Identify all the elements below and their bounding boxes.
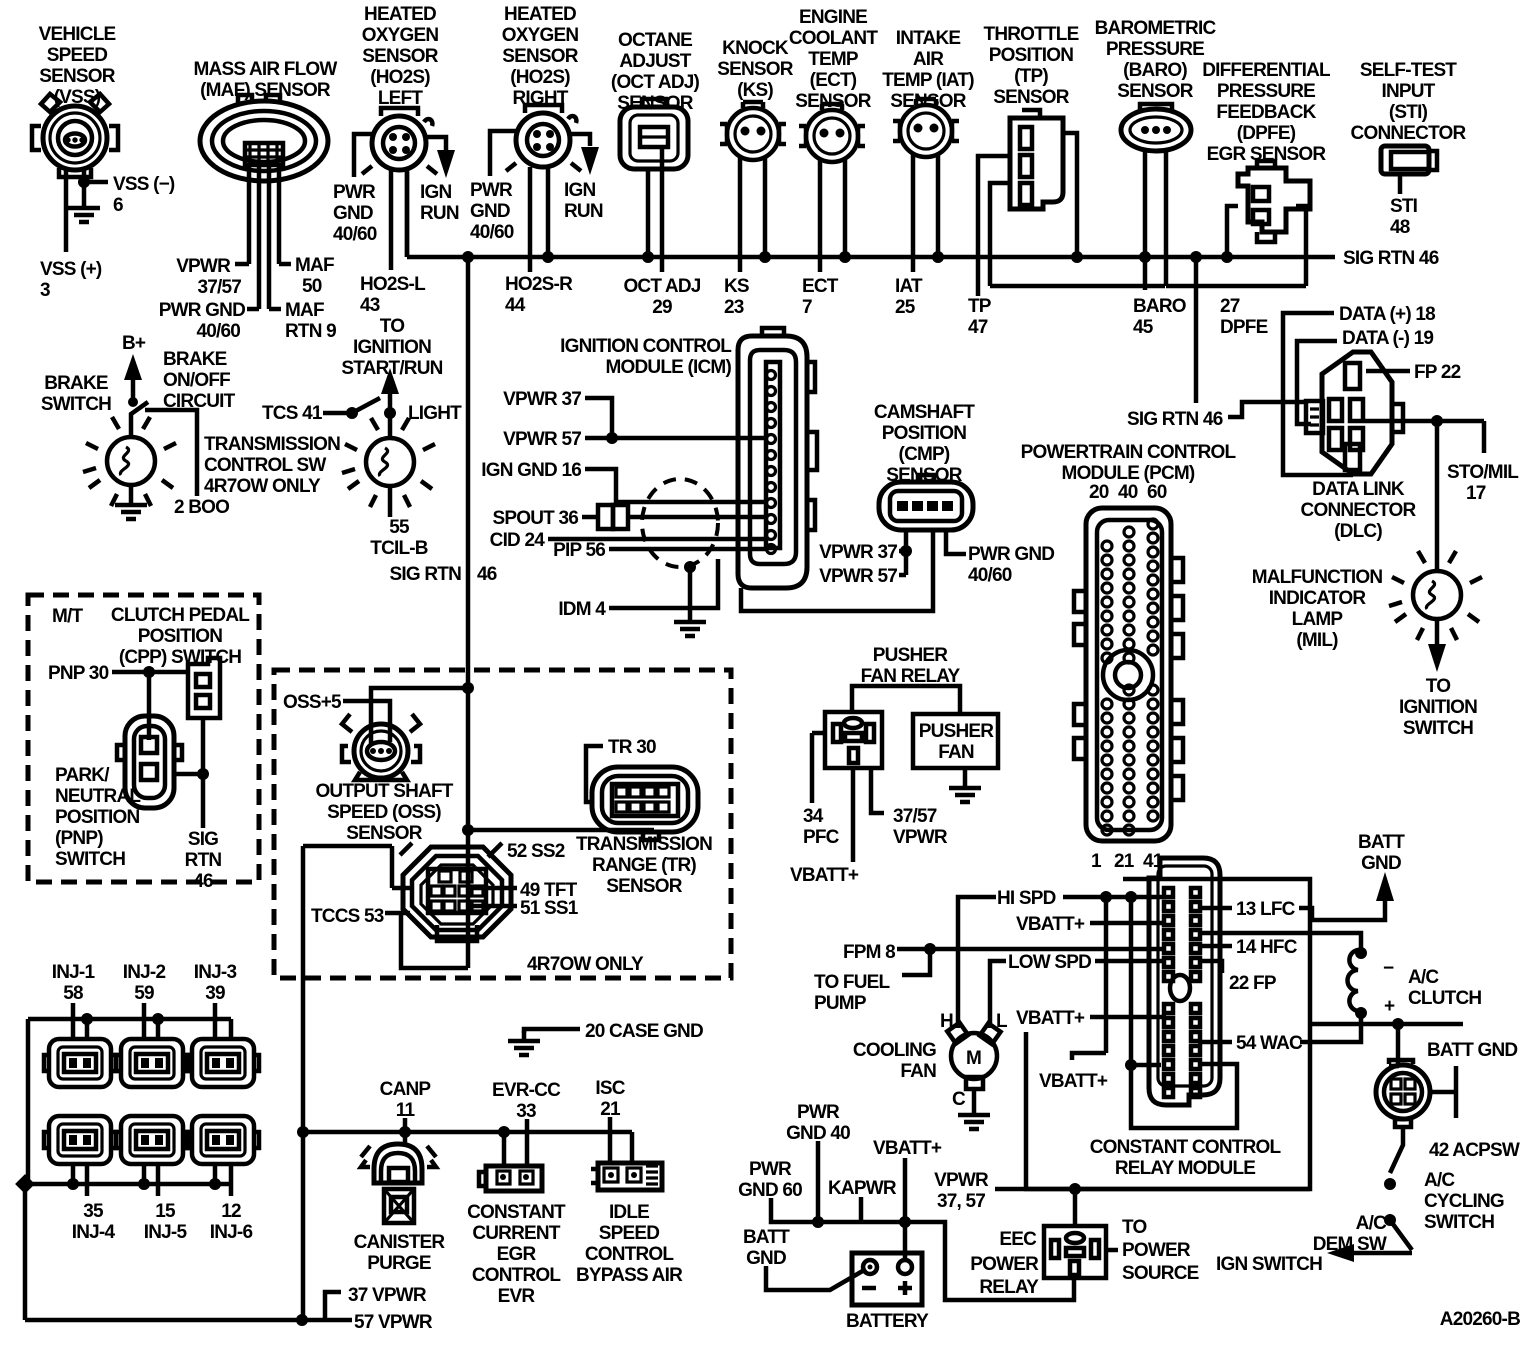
svg-text:MALFUNCTION: MALFUNCTION [1252,567,1383,588]
svg-text:37, 57: 37, 57 [937,1191,985,1212]
svg-text:37/57: 37/57 [893,806,937,827]
label VPWR 57 (ICM) [503,429,581,450]
svg-text:MODULE (ICM): MODULE (ICM) [606,357,732,378]
svg-text:(KS): (KS) [737,80,773,101]
svg-text:(PNP): (PNP) [55,828,103,849]
svg-text:POSITION: POSITION [882,423,966,444]
svg-text:VBATT+: VBATT+ [873,1138,942,1159]
label DATA LINK CONNECTOR (DLC) [1301,479,1417,542]
BARO sensor connector [1121,104,1191,151]
label PUSHER FAN RELAY [861,645,961,687]
label PNP 30 [48,663,109,684]
svg-text:BRAKE: BRAKE [44,373,108,394]
OCT ADJ pin wires [648,147,662,272]
wire A/C cycling feed [1310,1022,1463,1027]
svg-text:CONNECTOR: CONNECTOR [1301,500,1417,521]
svg-text:MAF: MAF [285,300,324,321]
label PWR GND 40 [786,1102,850,1144]
ground below shield [674,612,706,636]
HO2S-L wires: PWR GND stub, IGN RUN arrow, pin wires [354,134,446,177]
wire VPWR37 tick [899,549,906,554]
svg-text:BARO: BARO [1133,296,1186,317]
CMP pin wires [906,530,966,575]
label BARO 45 [1133,296,1186,338]
svg-text:(BARO): (BARO) [1123,60,1187,81]
MAF wires [235,165,291,309]
label MAF 50 [295,255,334,297]
svg-text:LOW SPD: LOW SPD [1008,952,1091,973]
svg-text:40/60: 40/60 [470,222,514,243]
wire CANP down [403,1118,408,1145]
TP sensor connector [1010,110,1063,209]
label VSS (+) 3 [40,259,102,301]
label IGNITION CONTROL MODULE (ICM) [560,336,732,378]
svg-text:SENSOR: SENSOR [346,823,423,844]
svg-text:SPEED (OSS): SPEED (OSS) [327,802,441,823]
svg-text:4R7OW ONLY: 4R7OW ONLY [527,954,644,975]
svg-text:INJ-5: INJ-5 [144,1222,188,1243]
svg-text:MASS AIR FLOW: MASS AIR FLOW [194,59,338,80]
svg-text:A/C: A/C [1408,967,1439,988]
svg-text:VPWR 57: VPWR 57 [819,566,897,587]
malfunction indicator lamp MIL bulb [1389,551,1482,640]
svg-text:TRANSMISSION: TRANSMISSION [204,434,340,455]
svg-text:RUN: RUN [564,201,603,222]
left vertical and bottom VPWR bus [25,1184,352,1320]
wire TCCS tick [385,911,410,916]
svg-text:SPEED: SPEED [47,45,107,66]
powertrain control module PCM connector [1074,508,1183,841]
wire FPM8 to CCRM [897,947,1166,952]
svg-text:(OCT ADJ): (OCT ADJ) [611,72,700,93]
svg-text:(TP): (TP) [1014,66,1048,87]
svg-text:CANP: CANP [380,1079,432,1100]
wire to fuel pump elbow [902,949,930,975]
svg-text:GND: GND [470,201,510,222]
wire CPP bottom to PNP [174,718,203,828]
ECT pin wires [820,160,845,272]
svg-text:25: 25 [895,297,916,318]
wire fan to ground [963,768,968,778]
label SIG RTN 46 (DLC) [1127,409,1223,430]
svg-text:+: + [1384,996,1395,1017]
svg-text:34: 34 [803,806,824,827]
label TO FUEL PUMP [814,972,891,1014]
svg-text:CLUTCH PEDAL: CLUTCH PEDAL [111,605,250,626]
wire cycling switch right bracket [1430,1066,1456,1118]
svg-text:KS: KS [724,276,749,297]
knock sensor connector [720,102,786,160]
svg-text:INTAKE: INTAKE [896,28,961,49]
svg-text:CONTROL: CONTROL [472,1265,562,1286]
label VSS (-) 6 [113,174,175,216]
ground under VSS [68,198,100,222]
svg-text:DATA (+) 18: DATA (+) 18 [1339,304,1435,325]
wire VPWR 37,57 line [995,1187,1310,1192]
svg-text:LIGHT: LIGHT [408,403,462,424]
data link connector DLC [1306,352,1403,474]
label 57 VPWR [354,1312,433,1333]
pusher fan relay connector [825,712,882,768]
svg-text:STO/MIL: STO/MIL [1447,462,1519,483]
svg-text:SENSOR: SENSOR [890,91,967,112]
svg-text:VPWR 57: VPWR 57 [503,429,581,450]
svg-text:OUTPUT SHAFT: OUTPUT SHAFT [315,781,453,802]
svg-text:(MIL): (MIL) [1296,630,1338,651]
svg-text:BATT: BATT [1358,832,1405,853]
svg-text:FPM 8: FPM 8 [843,942,895,963]
svg-text:RELAY MODULE: RELAY MODULE [1115,1158,1255,1179]
label PWR GND 40/60 [159,300,245,342]
wire fan L to LOW SPD [990,961,1006,1028]
svg-text:SWITCH: SWITCH [1403,718,1473,739]
wire battery plus to EEC relay [905,1222,1074,1300]
injector INJ-6 connector [187,1116,259,1164]
label B+ [122,333,146,354]
svg-text:DATA (-) 19: DATA (-) 19 [1342,328,1433,349]
svg-text:FP 22: FP 22 [1414,362,1461,383]
svg-text:EGR: EGR [497,1244,537,1265]
svg-text:7: 7 [802,297,812,318]
label A/C CLUTCH [1408,967,1481,1009]
svg-text:43: 43 [360,295,380,316]
svg-text:IGNITION: IGNITION [1399,697,1477,718]
label IGN RUN (HO2S-R) [564,180,603,222]
label OSS+5 [283,692,342,713]
svg-text:42 ACPSW: 42 ACPSW [1429,1140,1520,1161]
svg-text:STI: STI [1390,196,1418,217]
label PUSHER FAN [919,721,994,763]
wire PWR GND 60 [771,1198,902,1222]
heated oxygen sensor HO2S right label [502,4,579,109]
svg-text:BATT: BATT [743,1227,790,1248]
svg-text:GND 40: GND 40 [786,1123,850,1144]
svg-text:ENGINE: ENGINE [799,7,867,28]
svg-text:(DPFE): (DPFE) [1237,123,1296,144]
label 20 40 60 [1089,482,1167,503]
svg-text:LAMP: LAMP [1292,609,1344,630]
label CANISTER PURGE [354,1232,446,1274]
svg-text:29: 29 [652,297,672,318]
SIG RTN vertical through octagon to U-loop [466,688,471,968]
output shaft speed OSS sensor connector [342,714,420,780]
wire EEC relay top [1073,1189,1078,1226]
svg-text:SIG RTN: SIG RTN [390,564,462,585]
label DATA (+) 18 [1339,304,1435,325]
label 52 SS2 [507,841,565,862]
wire OSS+5 into sensor [343,701,390,742]
label CLUTCH PEDAL POSITION (CPP) SWITCH [111,605,250,668]
svg-text:PFC: PFC [803,827,840,848]
svg-text:FAN: FAN [900,1061,936,1082]
label MAF RTN 9 [285,300,336,342]
injector lower bus wire [25,1164,231,1196]
svg-text:4R7OW ONLY: 4R7OW ONLY [204,476,321,497]
svg-text:KNOCK: KNOCK [722,38,789,59]
svg-text:GND: GND [333,203,373,224]
label FPM 8 [843,942,895,963]
svg-text:MODULE (PCM): MODULE (PCM) [1062,463,1195,484]
svg-text:EVR: EVR [498,1286,536,1307]
svg-text:27: 27 [1220,296,1240,317]
svg-text:VPWR: VPWR [176,256,231,277]
svg-text:PWR: PWR [749,1159,792,1180]
svg-text:PWR GND: PWR GND [968,544,1054,565]
svg-text:COOLANT: COOLANT [789,28,879,49]
svg-text:CONSTANT CONTROL: CONSTANT CONTROL [1090,1137,1282,1158]
svg-text:PWR: PWR [470,180,513,201]
KS pin wires [740,158,765,272]
svg-text:PARK/: PARK/ [55,765,110,786]
label INJ-2 59 [123,962,166,1004]
label EEC POWER RELAY [970,1229,1039,1298]
svg-text:TCS 41: TCS 41 [262,403,323,424]
svg-text:INDICATOR: INDICATOR [1269,588,1367,609]
wire VBATT+ down to battery [903,1158,908,1258]
label ISC 21 [595,1078,625,1120]
CCRM pin squares [1164,888,1200,1097]
svg-text:BYPASS AIR: BYPASS AIR [576,1265,683,1286]
svg-text:6: 6 [113,195,123,216]
svg-text:(STI): (STI) [1389,102,1428,123]
svg-text:L: L [996,1011,1008,1032]
label CAMSHAFT POSITION (CMP) SENSOR [874,402,975,486]
octane adjust sensor connector [620,99,688,169]
label 20 CASE GND [585,1021,703,1042]
heated oxygen sensor HO2S left label [362,4,439,109]
svg-text:−: − [1383,958,1394,979]
label INJ-3 39 [194,962,237,1004]
CCRM keying oval [1170,975,1190,1001]
wire arrow up B+ [131,378,136,402]
label DATA (-) 19 [1342,328,1433,349]
svg-text:RELAY: RELAY [979,1277,1039,1298]
svg-text:IGNITION: IGNITION [353,337,431,358]
TCIL wire up with arrow [388,392,393,438]
label PWR GND 40/60 (HO2S-L) [333,182,377,245]
wire SPOUT to ICM [582,515,766,520]
label HO2S-R 44 [505,274,573,316]
wire A/C clutch feed [1198,933,1361,951]
svg-text:PIP 56: PIP 56 [553,540,605,561]
svg-text:57 VPWR: 57 VPWR [354,1312,433,1333]
svg-text:58: 58 [63,983,83,1004]
svg-text:PRESSURE: PRESSURE [1106,39,1204,60]
injector INJ-2 connector [116,1039,188,1087]
svg-text:SENSOR: SENSOR [39,66,116,87]
label BRAKE ON/OFF CIRCUIT [163,349,236,412]
wire 22 FP elbow [1198,961,1222,973]
svg-text:INJ-1: INJ-1 [52,962,96,983]
label FP 22 [1414,362,1461,383]
svg-text:VBATT+: VBATT+ [1016,1008,1085,1029]
svg-text:INJ-4: INJ-4 [72,1222,116,1243]
svg-text:SENSOR: SENSOR [502,46,579,67]
brake bulb [83,417,176,506]
svg-text:IDLE: IDLE [609,1202,649,1223]
svg-text:TEMP (IAT): TEMP (IAT) [882,70,974,91]
wire fan H up to HI SPD [958,897,996,1028]
svg-text:VBATT+: VBATT+ [1039,1071,1108,1092]
label IGN RUN (HO2S-L) [420,182,459,224]
TP wires [978,133,1165,296]
wire left harness into octagon [303,846,414,888]
wire TR30 elbow [586,746,603,802]
label VPWR 37, 57 [934,1170,989,1212]
injector INJ-5 connector [116,1116,188,1164]
svg-text:MAF: MAF [295,255,334,276]
svg-text:NEUTRAL: NEUTRAL [55,786,141,807]
label 1 21 41 [1091,851,1164,872]
STI stub wire [1398,174,1403,194]
svg-text:33: 33 [516,1101,536,1122]
svg-text:VSS (−): VSS (−) [113,174,175,195]
wire vbatt branch verticals [1072,897,1237,1128]
park/neutral position PNP switch connector [117,716,182,808]
svg-text:SIG RTN 46: SIG RTN 46 [1343,248,1439,269]
svg-text:HEATED: HEATED [364,4,436,25]
svg-text:HEATED: HEATED [504,4,576,25]
svg-text:FEEDBACK: FEEDBACK [1216,102,1316,123]
svg-text:(HO2S): (HO2S) [370,67,430,88]
label 15 INJ-5 [144,1201,188,1243]
svg-text:HO2S-L: HO2S-L [360,274,426,295]
label PIP 56 [553,540,605,561]
camshaft position CMP sensor connector [879,475,973,530]
label OUTPUT SHAFT SPEED (OSS) SENSOR [315,781,453,844]
heated oxygen sensor HO2S right connector [506,105,581,171]
label 2 BOO [174,497,229,518]
svg-text:1: 1 [1091,851,1102,872]
idle speed control ISC connector [591,1163,662,1190]
svg-text:20: 20 [1089,482,1109,503]
wire SIG RTN from bus down to DLC [1194,257,1199,403]
svg-text:SIG RTN 46: SIG RTN 46 [1127,409,1223,430]
label TO IGNITION START/RUN with arrow [341,316,442,379]
svg-text:POWERTRAIN CONTROL: POWERTRAIN CONTROL [1021,442,1237,463]
label EVR-CC 33 [492,1080,561,1122]
svg-text:40/60: 40/60 [333,224,377,245]
transmission range TR sensor connector [592,767,698,840]
wire with arrow below MIL [1435,619,1440,645]
svg-text:BATTERY: BATTERY [846,1311,929,1332]
wire BATT GND to battery minus [766,1266,866,1290]
svg-text:40/60: 40/60 [968,565,1012,586]
throttle position TP sensor label [984,24,1079,108]
svg-text:GND: GND [746,1248,786,1269]
label SIG RTN 46 (PNP) [185,829,222,892]
svg-text:RTN 9: RTN 9 [285,321,336,342]
wire PIP [609,547,766,552]
wire VSS(-) with junction [82,170,87,198]
svg-text:POWER: POWER [1122,1240,1191,1261]
HO2S-R wires: PWR GND stub, IGN RUN arrow [490,131,590,176]
wire VBATT+ (1) [1090,921,1166,926]
label 51 SS1 [520,898,579,919]
svg-text:TO FUEL: TO FUEL [814,972,891,993]
wire 51 SS1 tick [470,904,517,909]
svg-text:GND 60: GND 60 [738,1180,802,1201]
svg-text:SENSOR: SENSOR [993,87,1070,108]
label INJ-1 58 [52,962,96,1004]
BARO wires [1145,150,1166,290]
heated oxygen sensor HO2S left connector [362,108,437,174]
label PWR GND 40/60 (CMP) [968,544,1054,586]
wire DLC output to STO/MIL [1365,421,1484,453]
svg-text:BATT GND: BATT GND [1427,1040,1517,1061]
wire 49 TFT tick [470,886,517,891]
svg-text:TCCS 53: TCCS 53 [311,906,384,927]
svg-text:VPWR 37: VPWR 37 [819,542,897,563]
svg-text:47: 47 [968,317,988,338]
svg-text:60: 60 [1147,482,1167,503]
long vertical wire from bus to 4R70W area [466,257,471,688]
svg-text:POSITION: POSITION [55,807,139,828]
ground case [508,1031,540,1055]
label A/C DEM SW [1313,1213,1387,1255]
ignition control module ICM connector [738,328,817,588]
svg-text:PWR: PWR [797,1102,840,1123]
svg-text:PUSHER: PUSHER [919,721,994,742]
STI connector [1381,146,1437,174]
label BRAKE SWITCH [41,373,111,415]
wire fan C to ground [972,1089,977,1105]
svg-text:OSS+5: OSS+5 [283,692,342,713]
wire VSS(+) [64,170,69,252]
label OCT ADJ 29 [623,276,700,318]
PCM pin circles [1102,519,1158,835]
svg-text:ON/OFF: ON/OFF [163,370,230,391]
svg-text:CONSTANT: CONSTANT [467,1202,566,1223]
svg-text:EVR-CC: EVR-CC [492,1080,561,1101]
ECT sensor connector [799,104,865,162]
svg-text:17: 17 [1466,483,1486,504]
svg-text:CANISTER: CANISTER [354,1232,446,1253]
wire cycling switch to IGN switch [1390,1127,1403,1173]
svg-text:IGNITION CONTROL: IGNITION CONTROL [560,336,732,357]
ICM pin circles [767,371,776,554]
label SIG RTN 46 (bus right) [1343,248,1439,269]
svg-text:PWR: PWR [333,182,376,203]
wire CID [548,537,766,542]
label POWERTRAIN CONTROL MODULE (PCM) [1021,442,1237,484]
label 37/57 VPWR [893,806,948,848]
main SIG RTN bus wire [407,172,1335,257]
TCIL bulb [342,418,435,507]
wire TCIL bulb bottom [388,486,393,517]
wire VPWR57 to ICM [585,436,766,441]
svg-text:TEMP: TEMP [808,49,859,70]
svg-text:RTN: RTN [185,850,222,871]
wire IDM 4 [609,559,718,608]
svg-text:VPWR: VPWR [893,827,948,848]
svg-text:VPWR 37: VPWR 37 [503,389,581,410]
label KS 23 [724,276,749,318]
label TRANSMISSION RANGE (TR) SENSOR [576,834,712,897]
label 12 INJ-6 [210,1201,253,1243]
DPFE wires [1227,206,1306,286]
svg-text:KAPWR: KAPWR [828,1178,897,1199]
wire shield to ground [688,567,693,612]
svg-text:PWR GND: PWR GND [159,300,245,321]
svg-text:DATA LINK: DATA LINK [1312,479,1405,500]
label IDM 4 [558,599,606,620]
svg-text:BAROMETRIC: BAROMETRIC [1095,18,1217,39]
wire U-loop to TCCS junction [401,911,468,968]
svg-text:PURGE: PURGE [367,1253,431,1274]
self-test input STI connector label [1351,60,1467,144]
wire case gnd [524,1029,580,1033]
